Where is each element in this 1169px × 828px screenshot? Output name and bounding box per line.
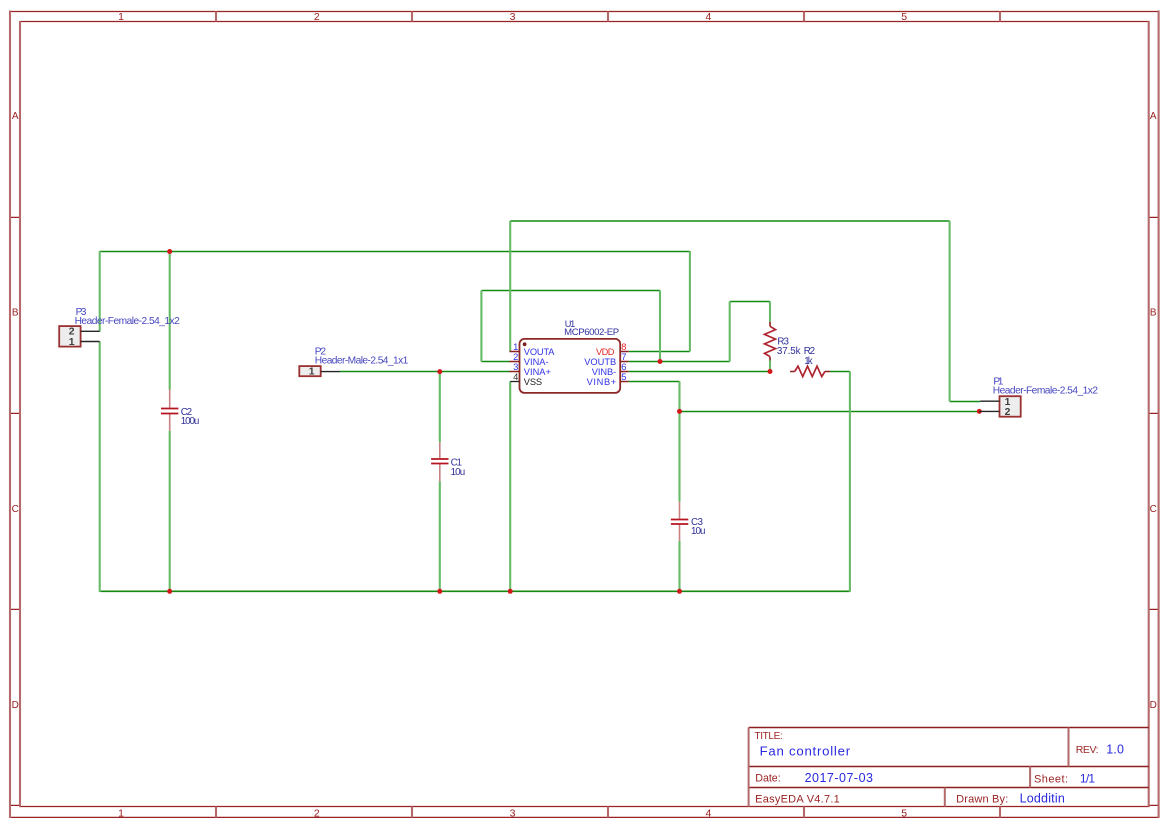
- svg-text:D: D: [12, 700, 19, 711]
- svg-text:10u: 10u: [451, 467, 466, 478]
- svg-text:TITLE:: TITLE:: [755, 731, 783, 742]
- svg-text:MCP6002-EP: MCP6002-EP: [564, 327, 619, 338]
- svg-text:Date:: Date:: [755, 772, 780, 784]
- svg-text:B: B: [12, 308, 19, 319]
- svg-text:100u: 100u: [181, 416, 200, 427]
- svg-text:Lodditin: Lodditin: [1020, 792, 1065, 806]
- svg-text:Header-Male-2.54_1x1: Header-Male-2.54_1x1: [315, 356, 409, 367]
- svg-text:1k: 1k: [804, 356, 812, 367]
- svg-text:VINA-: VINA-: [524, 357, 549, 367]
- svg-text:VINB+: VINB+: [587, 377, 617, 387]
- svg-text:VDD: VDD: [596, 347, 615, 357]
- svg-text:2: 2: [314, 807, 320, 819]
- svg-text:EasyEDA V4.7.1: EasyEDA V4.7.1: [755, 793, 840, 805]
- svg-text:3: 3: [510, 807, 516, 819]
- svg-text:C: C: [1150, 504, 1157, 515]
- svg-text:2: 2: [1005, 407, 1011, 418]
- svg-text:C: C: [12, 504, 19, 515]
- svg-text:VINB-: VINB-: [592, 367, 617, 377]
- svg-text:5: 5: [621, 371, 626, 382]
- svg-text:B: B: [1150, 308, 1157, 319]
- svg-text:D: D: [1150, 700, 1157, 711]
- svg-text:Header-Female-2.54_1x2: Header-Female-2.54_1x2: [993, 386, 1099, 397]
- svg-text:1: 1: [309, 367, 315, 378]
- svg-text:1: 1: [118, 807, 124, 819]
- svg-text:1: 1: [118, 11, 124, 23]
- svg-text:A: A: [12, 111, 19, 122]
- svg-text:2: 2: [314, 11, 320, 23]
- svg-text:4: 4: [705, 11, 711, 23]
- svg-text:Drawn By:: Drawn By:: [956, 793, 1008, 805]
- svg-text:VINA+: VINA+: [524, 367, 551, 377]
- svg-text:Sheet:: Sheet:: [1034, 773, 1068, 785]
- svg-text:2017-07-03: 2017-07-03: [805, 771, 873, 785]
- svg-text:1: 1: [69, 337, 75, 348]
- svg-text:A: A: [1150, 111, 1157, 122]
- svg-text:VOUTB: VOUTB: [584, 357, 616, 367]
- svg-text:3: 3: [510, 11, 516, 23]
- svg-text:REV:: REV:: [1076, 744, 1099, 756]
- svg-text:Header-Female-2.54_1x2: Header-Female-2.54_1x2: [75, 316, 181, 327]
- svg-text:4: 4: [513, 371, 518, 382]
- svg-text:VSS: VSS: [524, 377, 542, 387]
- svg-text:5: 5: [901, 807, 907, 819]
- svg-text:1/1: 1/1: [1080, 772, 1096, 786]
- svg-text:10u: 10u: [691, 526, 705, 537]
- svg-text:5: 5: [901, 11, 907, 23]
- svg-text:VOUTA: VOUTA: [524, 347, 555, 357]
- svg-text:Fan controller: Fan controller: [760, 744, 851, 759]
- svg-text:4: 4: [705, 807, 711, 819]
- svg-text:1.0: 1.0: [1106, 743, 1124, 757]
- svg-text:37.5k: 37.5k: [777, 346, 801, 357]
